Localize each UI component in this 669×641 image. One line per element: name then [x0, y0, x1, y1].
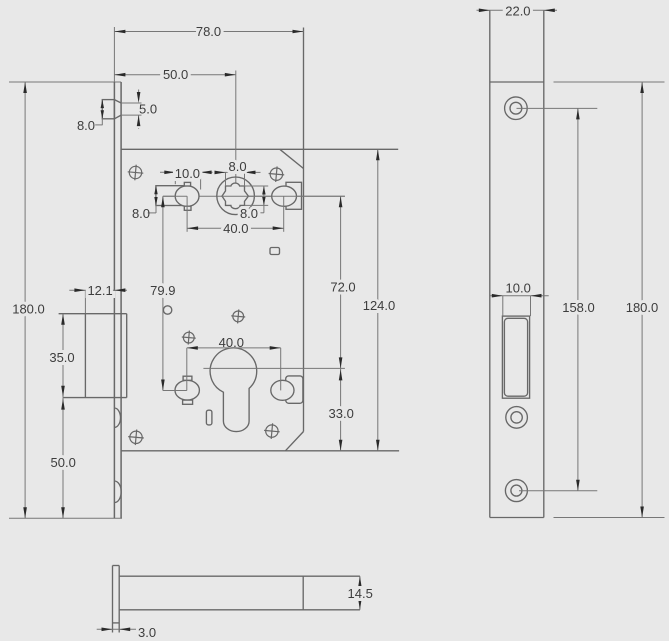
dim 14.5 case thickness	[358, 576, 362, 587]
bottom view: case body	[119, 575, 360, 577]
upper-left follower top tab	[184, 182, 190, 186]
dim 12.1 bolt throw	[69, 289, 127, 291]
screw head bottom-right	[266, 425, 278, 437]
upper-right follower	[272, 186, 297, 206]
screw head mid-left	[183, 332, 194, 343]
svg-text:22.0: 22.0	[505, 4, 530, 19]
dim 158.0 hole spacing	[517, 107, 598, 109]
dim 40.0 lower-left extension	[186, 348, 188, 391]
deadbolt (thrown)	[59, 313, 127, 315]
svg-text:180.0: 180.0	[626, 300, 659, 315]
dim 79.9 vertical spacing	[162, 196, 164, 390]
svg-text:79.9: 79.9	[150, 283, 175, 298]
faceplate bump upper	[114, 408, 120, 427]
side view latch opening	[502, 316, 529, 398]
svg-text:40.0: 40.0	[223, 221, 248, 236]
svg-text:8.0: 8.0	[132, 206, 150, 221]
upper-left follower bottom tab	[184, 206, 191, 210]
svg-text:12.1: 12.1	[87, 283, 112, 298]
dim 180.0 faceplate height	[24, 82, 26, 518]
centerline through right follower	[272, 195, 345, 197]
side view screw hole bottom	[505, 480, 527, 502]
svg-text:33.0: 33.0	[329, 406, 354, 421]
dim 40.0 lower-right extension	[280, 348, 282, 391]
small slot right	[270, 248, 280, 255]
side view: faceplate plate	[489, 10, 491, 517]
dim 78.0 overall width	[113, 27, 115, 82]
dim 8.0 latch height	[101, 100, 103, 126]
svg-text:8.0: 8.0	[229, 159, 247, 174]
dim 40.0 top followers spacing	[187, 227, 284, 229]
hub square spindle hole	[222, 183, 248, 209]
svg-text:3.0: 3.0	[138, 625, 156, 640]
svg-text:5.0: 5.0	[139, 101, 157, 116]
bottom view: faceplate strip	[112, 566, 114, 633]
dim 35.0 bolt height	[62, 314, 64, 398]
centerline through follower	[163, 195, 187, 197]
lower-left follower top tab	[183, 376, 192, 380]
dim 8.0 cutout height	[155, 186, 157, 213]
dim 5.0 latch tip	[138, 90, 140, 104]
screw head top-right	[270, 168, 282, 180]
cylinder centerline	[203, 367, 345, 369]
screw head top-left	[129, 166, 141, 178]
svg-text:14.5: 14.5	[348, 586, 373, 601]
svg-text:10.0: 10.0	[175, 166, 200, 181]
lower-right follower	[271, 380, 294, 400]
svg-text:78.0: 78.0	[196, 24, 221, 39]
front view: faceplate outline	[9, 81, 121, 83]
screw head center	[233, 311, 244, 322]
latch bolt (side profile)	[102, 100, 114, 119]
upper-right follower bracket	[286, 182, 302, 209]
dim 180.0 plate height (side)	[554, 81, 665, 83]
dim 33.0	[340, 368, 342, 450]
bottom view inner edge	[302, 576, 304, 610]
lower-left follower bottom tab	[183, 400, 193, 404]
front view: lock case outline	[121, 148, 398, 150]
small slot lower-left	[206, 410, 212, 425]
dim 40.0 left extension	[186, 196, 188, 232]
dim 8.0 spindle height	[263, 186, 265, 205]
dim 72.0	[340, 196, 342, 368]
dim 22.0 plate width	[477, 9, 558, 11]
lower-left follower	[175, 380, 199, 400]
svg-text:40.0: 40.0	[219, 335, 244, 350]
dim 40.0 right extension	[283, 196, 285, 232]
dim 10.0 opening width	[491, 295, 549, 297]
svg-text:72.0: 72.0	[330, 279, 355, 294]
dim 8.0 spindle width	[215, 171, 260, 173]
faceplate bump lower	[114, 481, 121, 503]
dim 40.0 bottom followers spacing	[187, 347, 281, 349]
svg-text:8.0: 8.0	[240, 206, 258, 221]
euro cylinder hole	[210, 348, 257, 432]
svg-text:180.0: 180.0	[12, 301, 45, 316]
hub center extension line	[235, 71, 237, 197]
upper-left follower cutout rect	[156, 186, 187, 206]
dim 10.0 follower dia	[160, 171, 213, 173]
svg-text:10.0: 10.0	[506, 281, 531, 296]
lower-right follower bracket	[286, 376, 303, 403]
dim 50.0 to hub center	[114, 74, 235, 76]
upper-left follower	[175, 186, 199, 207]
small hole left	[163, 306, 171, 314]
svg-text:8.0: 8.0	[77, 118, 95, 133]
screw head bottom-left	[130, 431, 142, 443]
side view hole middle	[506, 407, 528, 429]
dim 3.0 faceplate thickness	[97, 628, 136, 630]
svg-text:50.0: 50.0	[163, 67, 188, 82]
center hub circle	[217, 177, 255, 215]
svg-text:158.0: 158.0	[562, 300, 595, 315]
side view screw hole top	[505, 97, 528, 120]
svg-text:50.0: 50.0	[51, 455, 76, 470]
centerline through hub	[222, 195, 284, 197]
followers horizontal centerline	[163, 195, 345, 197]
svg-text:124.0: 124.0	[363, 298, 396, 313]
dim 124.0 case height	[377, 149, 379, 451]
dim 50.0 lower	[62, 398, 64, 519]
svg-text:35.0: 35.0	[49, 350, 74, 365]
